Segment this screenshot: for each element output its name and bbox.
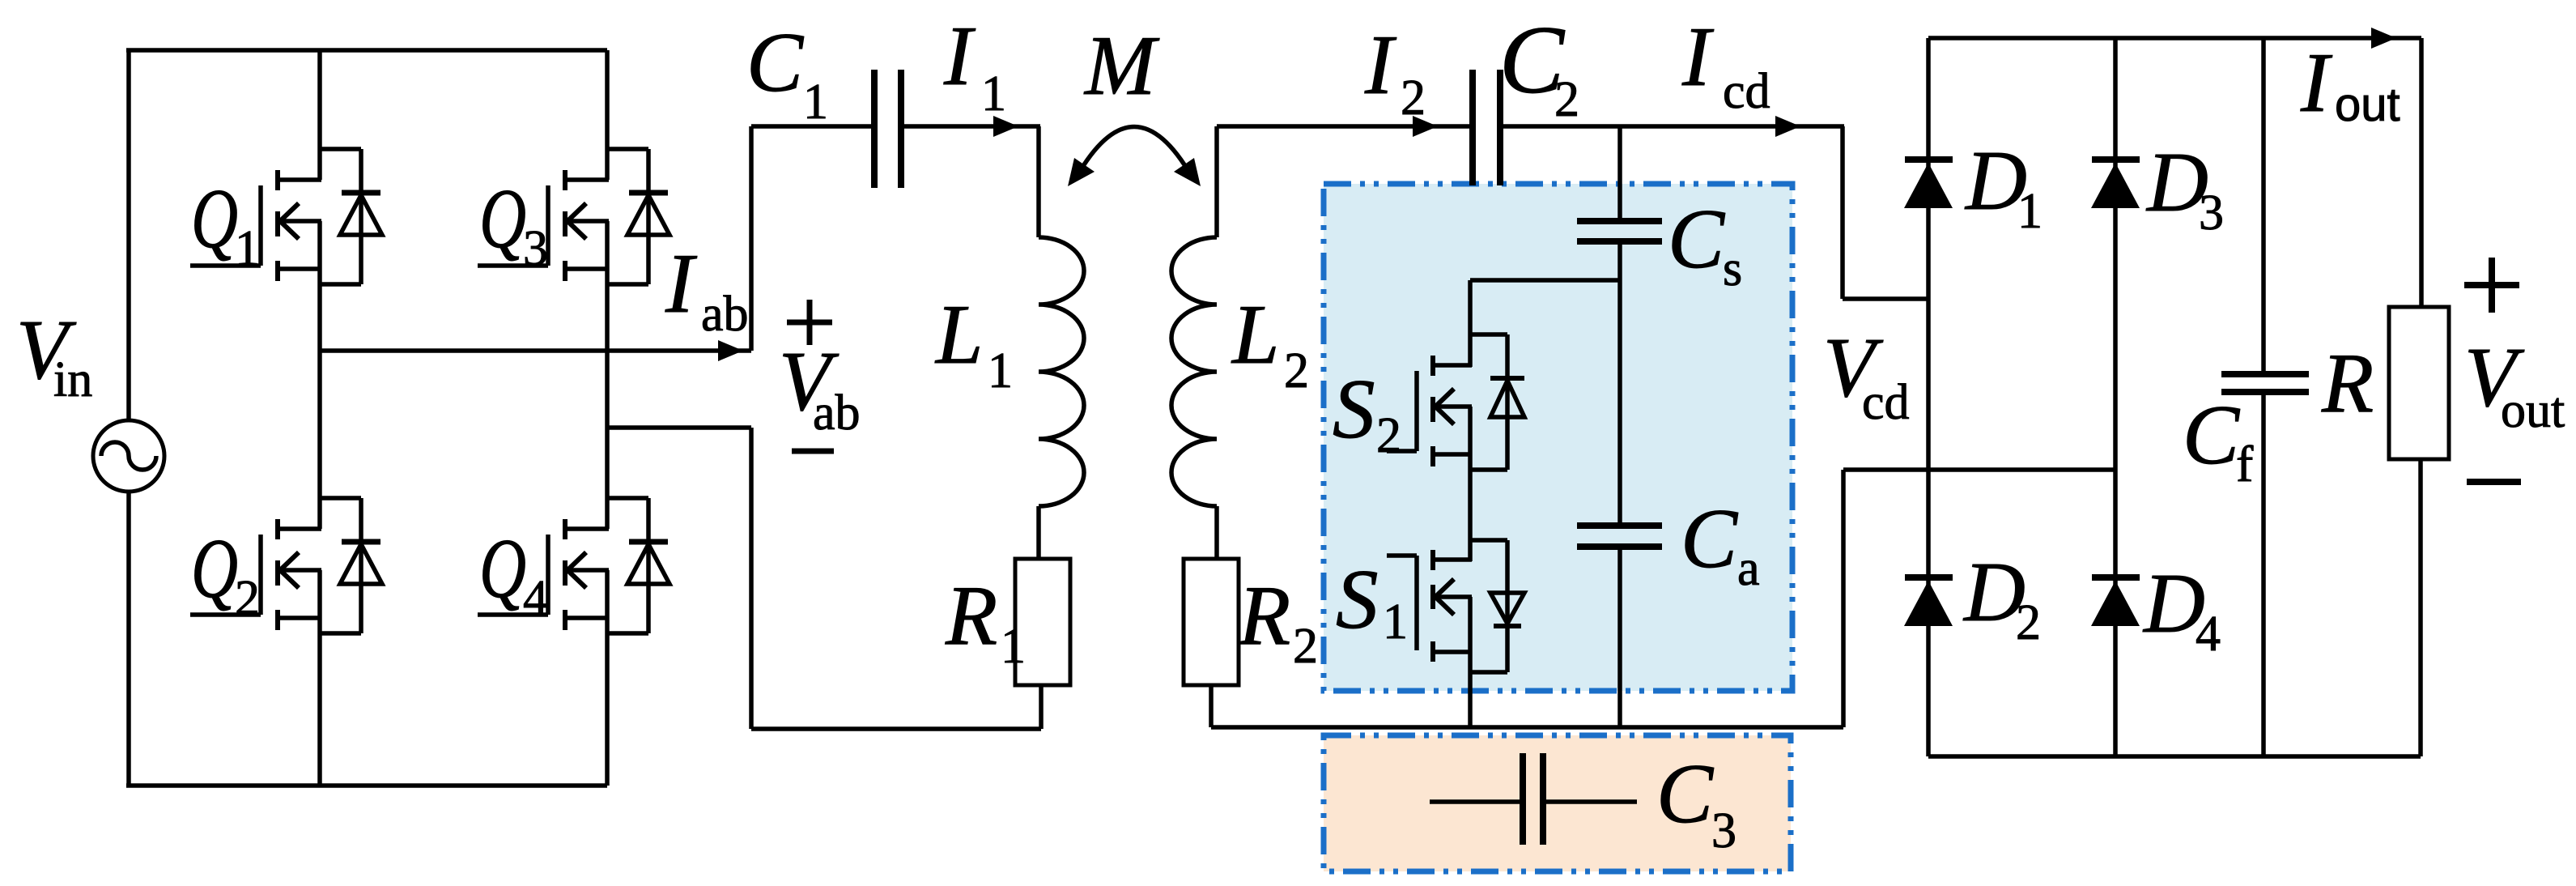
svg-text:2: 2 (1401, 70, 1426, 126)
wire L1 to R1 (1036, 506, 1041, 559)
svg-text:2: 2 (2016, 595, 2041, 650)
svg-text:out: out (2335, 79, 2400, 131)
wire load bottom (2418, 459, 2423, 756)
svg-text:Q: Q (191, 171, 238, 266)
inductor L1 (1039, 237, 1084, 506)
svg-text:a: a (1737, 541, 1760, 596)
svg-text:S: S (1333, 361, 1375, 456)
wire secondary bottom rail (1211, 725, 1843, 730)
svg-text:1: 1 (803, 75, 828, 130)
svg-text:C: C (1681, 491, 1739, 586)
wire secondary top with I2 arrow (1217, 116, 1471, 137)
resistor R1 (1015, 559, 1070, 685)
wire node a rail with Iab arrow (320, 340, 751, 361)
svg-text:I: I (665, 236, 698, 330)
AC source Vin circle (93, 420, 164, 492)
svg-text:1: 1 (2017, 184, 2043, 239)
label Q3 (479, 171, 548, 276)
svg-text:1: 1 (1383, 594, 1408, 650)
label Iab (665, 236, 749, 342)
svg-text:3: 3 (523, 221, 548, 276)
wire right leg middle (Q3 source to Q4 drain, node b) (605, 221, 610, 529)
label D1 (1964, 133, 2043, 239)
wire secondary corner down (1214, 126, 1219, 237)
label Iout (2300, 35, 2400, 131)
wire L2 to R2 (1214, 506, 1219, 559)
svg-text:R: R (1238, 568, 1290, 662)
wire node a vertical (749, 126, 754, 351)
wire load top (2419, 38, 2424, 307)
label R (2321, 335, 2374, 430)
svg-text:S: S (1336, 552, 1379, 646)
svg-text:C: C (746, 15, 805, 109)
wire C3 left lead (1430, 799, 1520, 804)
wire primary corner down (1036, 126, 1041, 237)
wire H-bridge bottom rail (126, 783, 607, 788)
svg-text:cd: cd (1723, 64, 1770, 119)
wire node c corner (1843, 126, 1928, 299)
svg-text:out: out (2501, 383, 2565, 438)
svg-text:1: 1 (235, 221, 260, 276)
label M (1083, 18, 1160, 113)
resistor R load (2389, 307, 2449, 459)
svg-text:I: I (943, 8, 976, 103)
label Q1 (191, 171, 260, 276)
transistor Q4 (478, 498, 670, 633)
wire S2 drain link (1470, 278, 1620, 283)
label S1 (1336, 552, 1408, 650)
svg-text:C: C (2183, 387, 2241, 482)
label - (Vout) (2467, 479, 2521, 485)
svg-text:Q: Q (191, 521, 238, 616)
transistor Q1 (190, 149, 382, 284)
wire primary top right with I1 arrow (903, 116, 1040, 137)
wire left leg lower (Q2 source to rail) (317, 570, 322, 786)
label + (Vout) (2464, 258, 2519, 313)
label Vab (779, 334, 861, 441)
wire Vin top (126, 50, 131, 422)
label C1 (746, 15, 828, 130)
svg-text:cd: cd (1862, 375, 1910, 430)
label C3 (1656, 746, 1736, 858)
wire Cf lower (2261, 395, 2266, 756)
wire R2 to bottom (1209, 685, 1214, 727)
wire right leg lower (Q4 source to rail) (605, 570, 610, 786)
label Vin (16, 302, 92, 407)
wire C2 to node c with Icd arrow (1503, 116, 1844, 137)
wire left leg middle (Q1 source to Q2 drain, node a) (317, 221, 322, 529)
wire center branch upper (1617, 126, 1622, 219)
capacitor C2 (1473, 70, 1500, 185)
diode D4 (2091, 577, 2140, 626)
svg-text:I: I (1681, 9, 1715, 104)
svg-text:ab: ab (813, 385, 861, 441)
capacitor Cf (2221, 374, 2309, 392)
diode D3 (2091, 160, 2140, 208)
svg-text:1: 1 (988, 343, 1013, 398)
wire R1 to bottom (1039, 685, 1044, 729)
svg-text:Q: Q (479, 521, 526, 616)
capacitor C1 (874, 70, 901, 188)
svg-text:f: f (2236, 435, 2254, 492)
wire Vin bottom (126, 490, 131, 786)
label Icd (1681, 9, 1770, 119)
svg-text:4: 4 (523, 571, 548, 626)
svg-text:C: C (1656, 746, 1715, 841)
label D4 (2142, 556, 2221, 662)
svg-text:R: R (945, 568, 997, 662)
wire rectifier top rail with Iout arrow (1928, 28, 2421, 49)
wire S2 top vertical (1468, 280, 1473, 367)
label D2 (1962, 544, 2041, 650)
capacitor Ca (1577, 526, 1662, 547)
capacitor Cs (1577, 221, 1662, 241)
inductor L2 (1171, 237, 1217, 506)
wire rectifier left leg (1926, 38, 1931, 756)
label R2 (1238, 568, 1318, 674)
svg-text:3: 3 (2199, 185, 2224, 241)
wire S2 source to S1 (1468, 407, 1473, 561)
wire node b rail (607, 425, 751, 430)
svg-text:4: 4 (2196, 607, 2221, 662)
svg-text:I: I (2300, 35, 2333, 130)
label - (Vab) (792, 449, 834, 454)
svg-text:1: 1 (1001, 619, 1026, 674)
diode D1 (1904, 160, 1953, 208)
label R1 (945, 568, 1026, 674)
wire primary bottom rail (751, 726, 1041, 731)
label L1 (934, 287, 1013, 398)
transistor S2 (1387, 334, 1524, 470)
wire rectifier right leg (2113, 38, 2118, 756)
label Ca (1681, 491, 1760, 596)
label D3 (2145, 134, 2224, 241)
wire H-bridge top rail (126, 48, 607, 53)
label L2 (1231, 287, 1309, 398)
svg-text:s: s (1723, 241, 1742, 296)
svg-text:L: L (1231, 287, 1279, 381)
label Vout (2464, 330, 2565, 438)
wire Cf upper (2261, 38, 2266, 371)
transistor Q2 (190, 498, 382, 633)
svg-text:2: 2 (1554, 72, 1579, 127)
svg-text:3: 3 (1711, 803, 1736, 858)
wire rectifier bottom rail (1928, 754, 2421, 759)
svg-text:2: 2 (1293, 619, 1318, 674)
diode D2 (1904, 577, 1953, 626)
wire center branch lower (1617, 548, 1622, 727)
label Q2 (191, 521, 260, 626)
capacitor C3 (1523, 753, 1543, 845)
svg-text:R: R (2321, 335, 2374, 430)
mutual coupling arrow M (1068, 127, 1201, 187)
svg-text:2: 2 (1284, 343, 1309, 398)
label C2 (1499, 6, 1579, 127)
wire right leg upper (to Q3 drain) (605, 50, 610, 180)
wire C3 right lead (1545, 799, 1637, 804)
wire primary top left (751, 124, 872, 129)
wire center branch middle (1617, 243, 1622, 524)
transistor S1 (1387, 540, 1524, 672)
svg-text:M: M (1083, 18, 1160, 113)
svg-text:in: in (53, 352, 92, 407)
svg-text:1: 1 (981, 66, 1006, 121)
label Q4 (479, 521, 548, 626)
resistor R2 (1184, 559, 1239, 685)
svg-text:2: 2 (235, 571, 260, 626)
svg-text:Q: Q (479, 171, 526, 266)
secondary compensation network box (light blue, dash-dot border) (1324, 184, 1792, 691)
wire node d corner (1843, 470, 2115, 727)
svg-text:C: C (1668, 191, 1726, 286)
transistor Q3 (478, 149, 670, 284)
label Cs (1668, 191, 1742, 296)
svg-text:2: 2 (1376, 408, 1401, 463)
label Cf (2183, 387, 2254, 492)
svg-text:ab: ab (701, 287, 749, 342)
C3 alternative-topology box (light orange, dash-dot border) (1324, 735, 1791, 871)
svg-text:I: I (1364, 17, 1397, 112)
wire left leg upper (Vdc+ to Q1 drain) (317, 50, 322, 180)
label Vcd (1823, 320, 1910, 430)
label I2 (1364, 17, 1426, 126)
label I1 (943, 8, 1006, 121)
label + (Vab) (787, 300, 832, 345)
wire S1 source down (1468, 597, 1473, 727)
wire node b vertical (749, 428, 754, 729)
svg-text:L: L (934, 287, 983, 381)
label S2 (1333, 361, 1401, 463)
